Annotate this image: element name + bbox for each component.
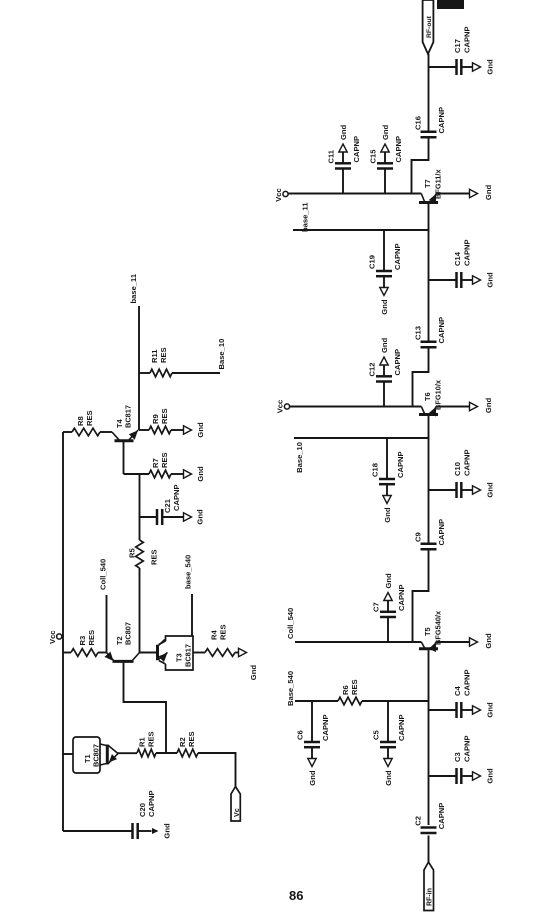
svg-text:R2: R2 (178, 737, 187, 747)
resistor R8 (63, 410, 100, 435)
node Base_10 (bias side) (172, 339, 226, 373)
wire (139, 474, 141, 540)
wire (428, 438, 430, 490)
svg-text:BFG540/x: BFG540/x (434, 610, 443, 645)
svg-text:Base_10: Base_10 (217, 339, 226, 370)
svg-text:T6: T6 (423, 392, 432, 401)
capacitor C2 (414, 803, 447, 833)
ground (339, 124, 348, 152)
svg-text:Vcc: Vcc (276, 400, 285, 414)
svg-text:CAPNP: CAPNP (437, 317, 446, 344)
svg-text:Gnd: Gnd (484, 398, 493, 414)
resistor R2 (177, 731, 198, 756)
wire (428, 650, 430, 701)
scan artifact black bar at page edge (437, 0, 464, 9)
transistor T7 (419, 169, 443, 204)
svg-text:CAPNP: CAPNP (393, 349, 402, 376)
svg-text:T5: T5 (423, 627, 432, 636)
capacitor C7 (372, 584, 407, 642)
wire (63, 830, 133, 832)
wire T5 emitter (436, 641, 470, 643)
ground (384, 759, 393, 786)
resistor R9 (139, 408, 171, 433)
connector RF-out (423, 0, 434, 54)
ground (473, 702, 495, 718)
ground (473, 768, 495, 784)
connector RF-in (424, 862, 434, 911)
svg-text:CAPNP: CAPNP (463, 669, 472, 696)
wire T3 emitter (193, 652, 205, 654)
capacitor C18 (371, 438, 406, 497)
svg-text:Gnd: Gnd (384, 573, 393, 589)
wire T2 collector to T3 base (140, 652, 158, 654)
svg-text:RES: RES (150, 549, 159, 565)
capacitor C19 (368, 230, 403, 289)
svg-text:CAPNP: CAPNP (396, 451, 405, 478)
ground (473, 272, 495, 288)
svg-text:base_11: base_11 (129, 273, 138, 303)
svg-text:T3: T3 (175, 653, 184, 662)
ground (308, 759, 317, 786)
svg-text:RES: RES (160, 408, 169, 424)
wire (428, 836, 430, 863)
ground (184, 466, 206, 482)
svg-text:C5: C5 (372, 730, 381, 740)
svg-text:base_11: base_11 (301, 202, 310, 232)
svg-text:R7: R7 (151, 458, 160, 468)
wire (428, 54, 430, 67)
ground (473, 482, 495, 498)
svg-text:CAPNP: CAPNP (393, 243, 402, 270)
wire (156, 752, 177, 754)
resistor R4 (205, 624, 235, 656)
resistor R7 (149, 452, 171, 477)
capacitor C17 (429, 26, 474, 75)
resistor R6 (338, 679, 362, 704)
svg-text:R9: R9 (151, 414, 160, 424)
svg-text:RES: RES (147, 731, 156, 747)
svg-text:R6: R6 (341, 685, 350, 695)
svg-text:C2: C2 (414, 816, 423, 826)
svg-text:C10: C10 (453, 462, 462, 476)
svg-text:Vcc: Vcc (48, 630, 57, 644)
capacitor C5 (372, 701, 407, 760)
svg-text:Gnd: Gnd (249, 665, 258, 681)
transistor T4 (112, 405, 138, 474)
transistor T6 (419, 379, 443, 416)
node base_540 (bias side) (184, 555, 193, 636)
wire Vcc feed T7 (288, 193, 421, 195)
svg-text:Coll_540: Coll_540 (286, 608, 295, 639)
svg-text:Gnd: Gnd (484, 633, 493, 649)
svg-text:C20: C20 (138, 803, 147, 817)
capacitor C9 (414, 519, 447, 549)
svg-text:BC817: BC817 (124, 405, 133, 428)
wire (428, 416, 430, 438)
svg-text:CAPNP: CAPNP (437, 107, 446, 134)
wire (100, 431, 112, 433)
svg-text:RES: RES (160, 452, 169, 468)
svg-text:RES: RES (187, 731, 196, 747)
wire Vcc bias rail (62, 432, 64, 831)
svg-text:C14: C14 (453, 251, 462, 266)
svg-text:CAPNP: CAPNP (352, 136, 361, 163)
capacitor C11 (327, 136, 362, 194)
resistor R3 (63, 630, 98, 656)
svg-text:C4: C4 (453, 686, 462, 696)
svg-text:R5: R5 (128, 548, 137, 558)
node Coll_540 (bias side) (99, 559, 108, 653)
svg-text:C7: C7 (372, 602, 381, 612)
ground (384, 573, 393, 601)
svg-text:CAPNP: CAPNP (463, 449, 472, 476)
svg-text:CAPNP: CAPNP (463, 26, 472, 53)
svg-text:R3: R3 (78, 636, 87, 646)
transistor T3 (158, 636, 194, 670)
svg-text:C19: C19 (368, 255, 377, 269)
wire (428, 776, 430, 825)
svg-text:T7: T7 (423, 179, 432, 188)
wire (428, 67, 430, 132)
svg-text:RES: RES (350, 679, 359, 695)
svg-text:CAPNP: CAPNP (437, 519, 446, 546)
ground (184, 422, 206, 438)
svg-text:C21: C21 (163, 498, 172, 513)
wire (63, 753, 73, 755)
wire (235, 652, 240, 654)
svg-text:Gnd: Gnd (308, 770, 317, 786)
svg-text:Gnd: Gnd (486, 768, 495, 784)
svg-text:C16: C16 (414, 116, 423, 130)
capacitor C12 (368, 349, 403, 407)
transistor T2 (104, 622, 139, 661)
svg-text:CAPNP: CAPNP (394, 136, 403, 163)
svg-text:Gnd: Gnd (196, 509, 205, 525)
ground (152, 823, 172, 839)
wire collector jog (413, 549, 429, 642)
wire (98, 652, 107, 654)
transistor T5 (419, 610, 443, 652)
ground (383, 496, 392, 523)
wire (139, 568, 141, 653)
wire (198, 753, 236, 787)
node Base_10 feed line (294, 438, 429, 473)
svg-text:Gnd: Gnd (486, 482, 495, 498)
svg-text:CAPNP: CAPNP (172, 484, 181, 511)
wire (428, 701, 430, 710)
svg-text:C9: C9 (414, 532, 423, 542)
svg-text:Gnd: Gnd (196, 422, 205, 438)
connector Vc (231, 787, 241, 822)
svg-text:R11: R11 (150, 349, 159, 363)
svg-text:Gnd: Gnd (486, 702, 495, 718)
wire (428, 710, 430, 776)
svg-text:C12: C12 (368, 363, 377, 377)
wire (428, 230, 430, 280)
wire collector jog (412, 137, 429, 193)
svg-text:CAPNP: CAPNP (397, 714, 406, 741)
svg-text:BFG10/x: BFG10/x (434, 379, 443, 410)
svg-text:CAPNP: CAPNP (463, 239, 472, 266)
node base_11 (bias side) (129, 273, 139, 430)
wire (124, 473, 150, 475)
svg-text:Gnd: Gnd (380, 337, 389, 353)
svg-text:Gnd: Gnd (196, 466, 205, 482)
ground (473, 59, 495, 75)
svg-text:Gnd: Gnd (486, 59, 495, 75)
svg-text:C11: C11 (327, 149, 336, 163)
capacitor C20 (133, 790, 157, 839)
svg-text:Gnd: Gnd (486, 272, 495, 288)
wire (428, 280, 430, 342)
svg-text:RES: RES (85, 410, 94, 426)
ground (381, 124, 390, 152)
wire T2 base (124, 663, 167, 753)
wire (171, 473, 185, 475)
svg-text:RES: RES (219, 624, 228, 640)
svg-text:C13: C13 (414, 326, 423, 340)
node Base_540 feed line (286, 671, 429, 706)
svg-text:C6: C6 (296, 730, 305, 740)
svg-text:C17: C17 (453, 39, 462, 53)
svg-text:C3: C3 (453, 752, 462, 762)
svg-text:CAPNP: CAPNP (397, 584, 406, 611)
svg-text:Vcc: Vcc (274, 188, 283, 202)
capacitor C6 (296, 701, 331, 760)
power Vcc terminal (T6) (276, 400, 290, 414)
svg-text:R8: R8 (76, 416, 85, 426)
svg-text:Vc: Vc (232, 808, 241, 817)
svg-text:RF-out: RF-out (426, 15, 433, 38)
svg-text:R1: R1 (138, 737, 147, 747)
svg-text:Gnd: Gnd (381, 124, 390, 140)
svg-text:Base_10: Base_10 (295, 442, 304, 473)
svg-text:RF-in: RF-in (427, 888, 434, 906)
svg-text:Gnd: Gnd (484, 185, 493, 201)
ground (380, 337, 389, 365)
resistor R5 (128, 540, 159, 568)
svg-text:CAPNP: CAPNP (147, 790, 156, 817)
wire (428, 490, 430, 544)
capacitor C21 (140, 484, 185, 525)
power Vcc terminal (T7) (274, 188, 288, 202)
power Vcc terminal (bias rail) (48, 630, 62, 644)
svg-text:Gnd: Gnd (383, 507, 392, 523)
capacitor C4 (429, 669, 474, 718)
svg-text:CAPNP: CAPNP (463, 735, 472, 762)
capacitor C3 (429, 735, 474, 784)
svg-text:Gnd: Gnd (380, 299, 389, 315)
wire T6 emitter (436, 406, 470, 408)
svg-text:C18: C18 (371, 463, 380, 477)
svg-text:CAPNP: CAPNP (437, 803, 446, 830)
svg-text:base_540: base_540 (184, 555, 193, 589)
capacitor C15 (369, 136, 404, 194)
resistor R1 (137, 731, 156, 756)
capacitor C14 (429, 239, 474, 288)
ground (470, 398, 494, 414)
svg-text:Coll_540: Coll_540 (99, 559, 108, 590)
capacitor C13 (414, 317, 447, 347)
capacitor C10 (429, 449, 474, 498)
ground (184, 509, 205, 525)
ground (470, 185, 494, 201)
svg-text:BC807: BC807 (124, 622, 133, 645)
transistor T1 (73, 737, 137, 773)
ground (380, 288, 389, 315)
svg-text:Base_540: Base_540 (286, 671, 295, 706)
svg-text:Gnd: Gnd (339, 124, 348, 140)
svg-text:Gnd: Gnd (163, 823, 172, 839)
svg-text:Gnd: Gnd (384, 770, 393, 786)
wire (428, 204, 430, 230)
node Coll_540 feed line (286, 608, 421, 642)
svg-text:C15: C15 (369, 149, 378, 164)
svg-text:RES: RES (159, 347, 168, 363)
ground (239, 648, 259, 680)
svg-text:R4: R4 (210, 630, 219, 640)
wire collector jog (413, 347, 429, 406)
svg-text:RES: RES (87, 630, 96, 646)
svg-text:BC817: BC817 (184, 644, 193, 667)
resistor R11 (139, 347, 172, 376)
svg-text:BC807: BC807 (92, 744, 101, 767)
wire (171, 429, 185, 431)
wire T7 emitter (436, 193, 470, 195)
svg-text:CAPNP: CAPNP (321, 714, 330, 741)
node base_11 feed line (293, 202, 429, 232)
svg-text:86: 86 (289, 888, 303, 903)
capacitor C16 (414, 107, 447, 137)
wire Vcc feed T6 (290, 406, 422, 408)
ground (470, 633, 494, 649)
